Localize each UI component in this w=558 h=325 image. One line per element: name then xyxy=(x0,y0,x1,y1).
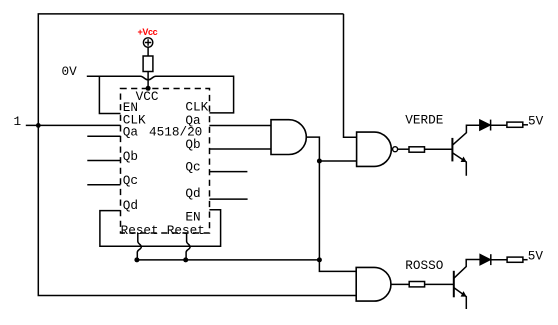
wire outer frame (top, left, bottom) xyxy=(38,14,356,296)
wire Reset 2 squiggle with hop xyxy=(186,233,190,260)
diode D2 xyxy=(480,254,491,265)
transistor Q2 emitter xyxy=(454,288,467,309)
svg-text:Qc: Qc xyxy=(185,160,200,175)
junction dot VCC pin xyxy=(146,86,151,91)
junction dot at frame/input-1 xyxy=(36,123,41,128)
resistor R1 xyxy=(143,56,153,72)
wire 0V branch to EN pin xyxy=(99,76,120,113)
diode D1 xyxy=(480,120,491,131)
svg-text:Reset: Reset xyxy=(167,223,205,238)
svg-text:Qb: Qb xyxy=(123,149,138,164)
resistor R3 xyxy=(507,122,523,127)
transistor Q1 emitter xyxy=(452,153,466,176)
and-gate A (Qa.Qb) xyxy=(271,120,306,155)
wire stub Qd right xyxy=(209,198,247,200)
svg-text:Qd: Qd xyxy=(185,186,200,201)
wire U-loop Qd-left to EN-right xyxy=(100,210,221,247)
wire R5 to 5V xyxy=(523,259,528,261)
transistor Q1 collector xyxy=(452,125,479,145)
svg-text:VCC: VCC xyxy=(136,89,159,104)
wire Reset 1 squiggle with hop xyxy=(137,233,141,260)
transistor Q2 collector xyxy=(454,260,480,279)
svg-text:ROSSO: ROSSO xyxy=(405,258,443,273)
svg-text:5V: 5V xyxy=(528,248,544,263)
wire D1 to resistor R3 xyxy=(491,124,508,126)
and-gate C (ROSSO) xyxy=(356,267,391,301)
svg-text:VERDE: VERDE xyxy=(405,113,443,128)
transistor Q2 base bar xyxy=(453,271,455,298)
IC U1 4518/20 dashed outline xyxy=(121,89,210,234)
nand-gate B output bubble xyxy=(393,147,398,152)
wire 0V rail with hop over Vcc wire xyxy=(87,76,234,113)
svg-text:0V: 0V xyxy=(62,64,78,79)
nand-gate B (VERDE) xyxy=(357,132,392,166)
svg-text:Qa: Qa xyxy=(185,113,201,128)
svg-text:Qd: Qd xyxy=(123,198,138,213)
resistor R4 xyxy=(409,282,424,287)
wire down to ROSSO AND top input xyxy=(319,260,356,272)
wire stub Qa left xyxy=(87,135,120,137)
transistor Q2 emitter arrow xyxy=(461,291,467,297)
wire R4 to Q2 base xyxy=(425,283,454,285)
wire R2 to Q1 base xyxy=(425,148,453,150)
junction dot Reset 1 xyxy=(134,257,139,262)
transistor Q1 emitter arrow xyxy=(461,157,467,163)
svg-text:Qb: Qb xyxy=(185,137,200,152)
wire stub Qc left xyxy=(87,184,120,186)
wire Reset rail to ROSSO branch xyxy=(137,259,320,261)
junction dot A output xyxy=(317,159,322,164)
supply symbol circle-plus xyxy=(143,38,152,47)
resistor R2 xyxy=(409,147,425,152)
wire A output down to junction xyxy=(306,137,319,161)
wire C output to resistor R4 xyxy=(391,283,409,285)
wire Qb right to AND gate xyxy=(209,148,271,150)
wire R3 to 5V xyxy=(523,124,528,126)
wire D2 to resistor R5 xyxy=(491,259,507,261)
wire stub Qb left xyxy=(87,160,120,162)
wire supply to resistor R1 xyxy=(147,47,149,56)
transistor Q1 base bar xyxy=(451,138,453,162)
resistor R5 xyxy=(507,257,523,262)
wire input 1 to CLK pin xyxy=(26,124,121,126)
wire B output to resistor R2 xyxy=(398,148,409,150)
svg-text:EN: EN xyxy=(185,210,200,225)
wire R1 to VCC pin xyxy=(147,72,149,89)
wire junction down to Reset rail xyxy=(318,161,320,260)
svg-text:Reset: Reset xyxy=(121,223,159,238)
junction dot Reset 2 xyxy=(183,257,188,262)
junction dot Reset rail xyxy=(317,257,322,262)
wire stub Qc right xyxy=(209,171,247,173)
svg-text:+Vcc: +Vcc xyxy=(138,27,158,37)
wire Qa right to AND gate xyxy=(209,125,271,127)
svg-text:5V: 5V xyxy=(528,113,544,128)
wire junction to NAND lower input xyxy=(319,160,356,162)
wire top feed to NAND top input xyxy=(344,14,357,137)
svg-text:Qc: Qc xyxy=(123,173,138,188)
svg-text:Qa: Qa xyxy=(123,125,139,140)
svg-text:1: 1 xyxy=(14,114,22,129)
